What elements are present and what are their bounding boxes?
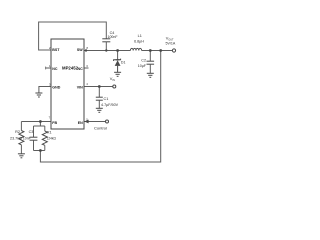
svg-text:4.7µF/50V: 4.7µF/50V: [101, 103, 119, 107]
terminal VOUT: [172, 49, 175, 52]
node C2/VOUT: [149, 49, 152, 52]
svg-text:100nF: 100nF: [108, 35, 118, 39]
node FB junction: [39, 120, 42, 123]
svg-text:R2: R2: [15, 130, 20, 134]
labels: [10, 31, 176, 140]
svg-text:EN: EN: [78, 121, 83, 125]
svg-text:C2: C2: [141, 59, 146, 63]
inductor L1: [130, 48, 141, 50]
wire BST loop: [39, 22, 107, 50]
wire feedback from VOUT down and left: [40, 51, 160, 163]
wire VIN to terminal: [84, 86, 113, 88]
svg-text:SW: SW: [77, 48, 83, 52]
wire divider connector: [34, 122, 45, 151]
svg-text:C1: C1: [104, 97, 109, 101]
svg-text:10µF: 10µF: [138, 64, 147, 68]
wire VOUT rail: [142, 50, 173, 52]
svg-text:23.7kΩ: 23.7kΩ: [10, 136, 22, 140]
ground under D1: [114, 72, 121, 76]
capacitor C4: [102, 39, 110, 51]
node D1/SW: [116, 49, 119, 52]
node C4/SW: [105, 49, 107, 51]
junction dots: [39, 49, 162, 152]
node EN arrow: [84, 120, 88, 124]
svg-text:D1: D1: [121, 61, 126, 65]
svg-text:NC: NC: [77, 67, 83, 71]
diode D1 branch wire: [117, 51, 119, 60]
ground at GND pin: [35, 93, 42, 97]
wire NC left stub: [46, 67, 51, 70]
svg-text:L1: L1: [138, 34, 142, 38]
svg-text:5V/1A: 5V/1A: [166, 42, 176, 46]
svg-text:10nF: 10nF: [23, 137, 31, 141]
svg-text:MP2452: MP2452: [62, 65, 79, 70]
resistor R1: [42, 126, 47, 151]
svg-text:VIN: VIN: [77, 86, 83, 90]
svg-text:C3: C3: [29, 130, 34, 134]
ground under C2: [147, 73, 154, 77]
node divider bottom: [39, 149, 42, 152]
capacitor C2 branch: [147, 51, 155, 74]
IC U1 box: [51, 39, 84, 129]
resistor R2: [19, 122, 24, 154]
svg-text:124kΩ: 124kΩ: [47, 137, 57, 141]
ground under R2: [18, 154, 25, 158]
diode D1 (schottky): [114, 59, 121, 73]
wire EN to terminal: [84, 121, 106, 123]
svg-text:GND: GND: [52, 86, 60, 90]
svg-text:6.8µH: 6.8µH: [134, 40, 144, 44]
wire SW rail: [84, 50, 130, 52]
svg-text:FB: FB: [52, 121, 57, 125]
terminal Control: [106, 120, 109, 123]
svg-text:BST: BST: [52, 48, 60, 52]
node SW pin: [85, 49, 87, 51]
ground under C1: [96, 108, 103, 112]
wire FB to divider: [21, 121, 51, 123]
terminal VIN: [113, 85, 116, 88]
node C1/VIN: [98, 85, 101, 88]
svg-text:NC: NC: [52, 67, 58, 71]
capacitor C1 branch: [96, 87, 103, 109]
capacitor C3: [30, 126, 38, 151]
svg-text:R1: R1: [47, 130, 52, 134]
wire NC right stub: [84, 67, 89, 69]
node FB-wire/VOUT: [159, 49, 162, 52]
wire GND pin to ground: [39, 87, 51, 94]
svg-text:Control: Control: [94, 126, 107, 131]
